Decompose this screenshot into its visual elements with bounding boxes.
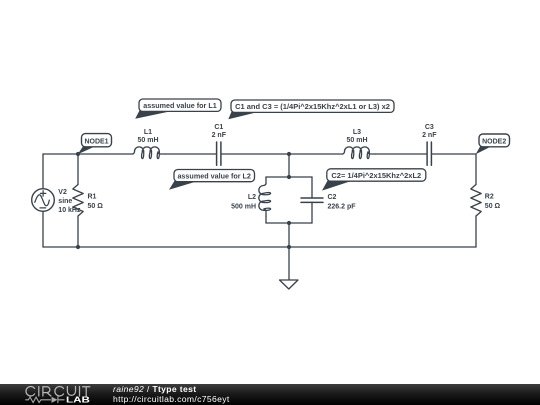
callout assumed value for L2 <box>169 170 255 190</box>
wire R2 branch bottom <box>475 216 477 247</box>
wire top rail L3 to C3 <box>376 153 427 155</box>
wire tank stem top <box>288 154 290 177</box>
junction bottom rail center <box>287 245 291 249</box>
junction tank top <box>287 175 291 179</box>
svg-text:50 mH: 50 mH <box>346 137 367 144</box>
svg-text:LAB: LAB <box>66 395 90 405</box>
footer title raine92 / Ttype test <box>113 385 196 394</box>
wire tank right leads <box>311 177 313 223</box>
svg-text:50 Ω: 50 Ω <box>485 203 501 210</box>
svg-text:C1 and C3 = (1/4Pi^2x15Khz^2xL: C1 and C3 = (1/4Pi^2x15Khz^2xL1 or L3) x… <box>235 102 390 111</box>
svg-text:C3: C3 <box>425 124 434 131</box>
svg-text:L2: L2 <box>248 194 256 201</box>
node NODE2 flag <box>476 134 510 154</box>
svg-text:assumed value for L2: assumed value for L2 <box>177 172 251 181</box>
wire tank left leads <box>265 177 267 223</box>
svg-text:C1: C1 <box>214 124 223 131</box>
node NODE1 flag <box>78 134 112 155</box>
callout assumed value for L1 <box>135 99 221 119</box>
svg-text:500 mH: 500 mH <box>231 204 256 211</box>
svg-text:10 kHz: 10 kHz <box>58 207 81 214</box>
label V2 value <box>58 189 81 214</box>
wire bottom rail <box>43 246 476 248</box>
wire left branch V2 top <box>42 154 44 189</box>
junction NODE1 dot <box>76 152 80 156</box>
label R1 value <box>88 194 104 210</box>
svg-text:L3: L3 <box>353 129 361 136</box>
svg-text:C2: C2 <box>328 194 337 201</box>
label L2 value <box>231 194 256 211</box>
svg-text:2 nF: 2 nF <box>212 132 227 139</box>
svg-text:R1: R1 <box>88 194 97 201</box>
resistor R2 <box>471 185 481 217</box>
label L3 value <box>346 129 367 144</box>
svg-text:226.2 pF: 226.2 pF <box>328 204 357 211</box>
wire top rail left (NODE1 to L1) <box>43 153 133 155</box>
svg-text:NODE1: NODE1 <box>84 138 108 145</box>
svg-text:2 nF: 2 nF <box>422 132 437 139</box>
svg-text:assumed value for L1: assumed value for L1 <box>143 101 217 110</box>
label C1 value <box>212 124 227 139</box>
junction node A top rail <box>287 152 291 156</box>
capacitor C3 <box>427 142 431 165</box>
wire R1 branch bottom <box>77 216 79 247</box>
capacitor C1 <box>217 142 221 165</box>
wire top rail C3 to NODE2 <box>432 153 476 155</box>
junction tank bottom <box>287 221 291 225</box>
wire tank stem bottom to ground <box>288 223 290 280</box>
svg-text:R2: R2 <box>485 194 494 201</box>
footer url <box>113 395 230 404</box>
label R2 value <box>485 194 501 210</box>
svg-text:L1: L1 <box>144 129 152 136</box>
svg-text:sine: sine <box>58 198 72 205</box>
resistor R1 <box>73 185 83 217</box>
CircuitLab footer logo <box>0 384 110 405</box>
wire R1 branch top <box>77 154 79 185</box>
callout C2 formula <box>322 169 426 191</box>
wire left branch V2 bottom <box>42 211 44 247</box>
svg-text:50 Ω: 50 Ω <box>88 203 104 210</box>
svg-text:NODE2: NODE2 <box>482 139 506 146</box>
wire top rail C1 to L3 (through node A junction) <box>222 153 343 155</box>
label L1 value <box>137 129 158 144</box>
svg-text:C2= 1/4Pi^2x15Khz^2xL2: C2= 1/4Pi^2x15Khz^2xL2 <box>331 171 421 180</box>
inductor L1 <box>133 147 166 159</box>
label C3 value <box>422 124 437 139</box>
wire R2 branch top <box>475 154 477 185</box>
label C2 value <box>328 194 357 211</box>
voltage source V2 <box>32 189 55 212</box>
ground <box>280 280 299 289</box>
callout C1 and C3 formula <box>228 100 394 119</box>
capacitor C2 (horizontal plates) <box>301 198 323 202</box>
svg-text:V2: V2 <box>58 189 67 196</box>
inductor L3 <box>343 147 376 159</box>
wire tank top side <box>266 176 312 178</box>
wire top rail L1 to C1 <box>166 153 217 155</box>
svg-text:50 mH: 50 mH <box>137 137 158 144</box>
junction bottom rail R1 <box>76 245 80 249</box>
wire tank bottom side <box>266 222 312 224</box>
inductor L2 (vertical) <box>259 184 271 217</box>
